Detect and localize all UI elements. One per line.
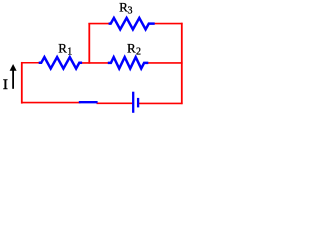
current arrow (upward) xyxy=(10,64,17,89)
svg-text:I: I xyxy=(3,77,8,93)
wire: top branch left segment (mid vertical to R3) xyxy=(88,23,109,25)
wire: middle branch segment between R1 and R2 (through node at mid vertical) xyxy=(82,62,109,64)
wire: mid vertical joining top branch to middle node xyxy=(88,23,90,64)
wire: bottom left segment (left vertical to blue bar) xyxy=(21,102,81,104)
battery B1 long plate (+) xyxy=(132,92,134,113)
label R2 xyxy=(127,41,141,58)
svg-text:1: 1 xyxy=(67,47,72,58)
wire: middle branch left segment (battery loop to R1) xyxy=(21,62,40,64)
wire: bottom right segment (battery - plate to right vertical) xyxy=(139,102,183,104)
wire: bottom segment (blue bar to battery + plate) xyxy=(97,102,133,104)
svg-text:R: R xyxy=(127,41,136,56)
svg-text:2: 2 xyxy=(136,47,141,58)
svg-text:3: 3 xyxy=(128,6,133,17)
resistor R3 zigzag xyxy=(109,18,155,30)
label R1 xyxy=(58,41,72,58)
wire: left vertical (current loop) xyxy=(21,62,23,104)
wire: middle branch right segment (R2 to right vertical) xyxy=(148,62,183,64)
battery B1 short plate (-) xyxy=(137,98,139,108)
resistor R2 zigzag xyxy=(108,57,149,69)
switch/thick wire segment (blue bar) on bottom wire xyxy=(79,101,98,103)
label R3 xyxy=(119,0,132,17)
svg-text:R: R xyxy=(58,41,67,56)
wire: top branch right segment (R3 to right vertical) xyxy=(154,23,182,25)
resistor R1 zigzag xyxy=(39,57,82,69)
wire: right vertical xyxy=(181,23,183,104)
